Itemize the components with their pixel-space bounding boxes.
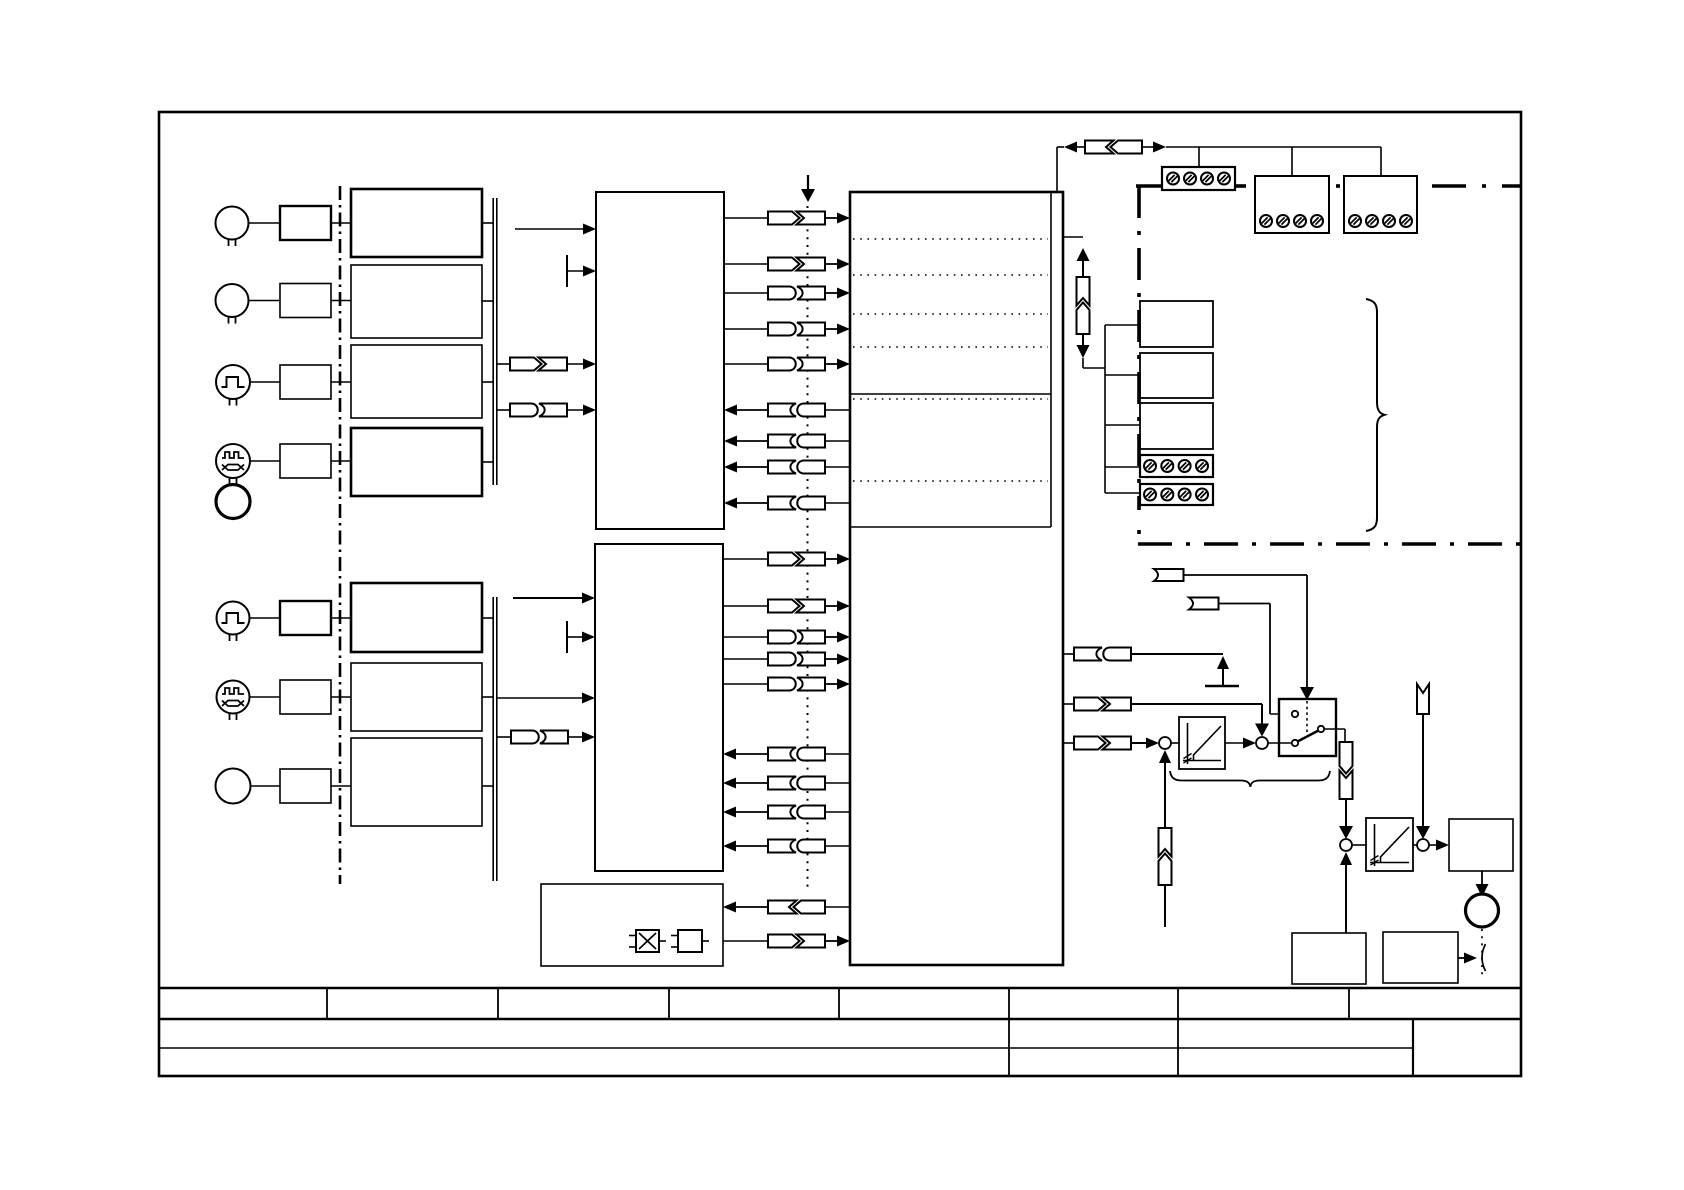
wire (737, 440, 768, 442)
switch lever (1298, 731, 1319, 742)
ramp generator RFG1 (1179, 717, 1225, 769)
wire (331, 222, 351, 224)
title block row separator (159, 987, 1521, 989)
wire (825, 328, 839, 330)
arrow (837, 359, 850, 370)
interface module A2 (280, 284, 331, 318)
wire (1082, 358, 1084, 368)
wire (482, 381, 493, 383)
arrow (1436, 840, 1449, 851)
default input tee (567, 255, 584, 287)
limiter element (671, 930, 709, 952)
wire (723, 658, 768, 660)
incremental encoder G6 (217, 681, 250, 721)
potential arrow (1205, 656, 1239, 686)
title block lower divider 1 (1008, 1019, 1010, 1076)
arrow (1159, 750, 1171, 763)
wire (1105, 466, 1140, 468)
wire (825, 502, 850, 504)
wire (1198, 147, 1200, 167)
wire (736, 753, 768, 755)
wire (825, 683, 839, 685)
function group brace (1170, 771, 1330, 787)
bus rail 1 (493, 198, 497, 485)
title block column divider 6 (1177, 988, 1179, 1019)
wire (331, 785, 351, 787)
connector K8 (768, 404, 825, 417)
pulse generator G3 (216, 365, 250, 406)
wire (250, 696, 281, 698)
arrow (1476, 884, 1489, 897)
wire (250, 381, 280, 383)
wire (825, 363, 839, 365)
arrow (837, 601, 850, 612)
wire (497, 697, 583, 699)
wire (331, 617, 351, 619)
default input tee (567, 621, 583, 653)
wire (825, 811, 850, 813)
wire (723, 940, 768, 942)
connector K19 (768, 777, 825, 790)
unit boundary dash-dot side (1137, 186, 1141, 534)
title block thin rule (159, 1047, 1413, 1049)
connector K3 (768, 212, 825, 225)
arrow (1255, 724, 1269, 737)
arrow (582, 693, 595, 704)
arrow (724, 498, 737, 509)
incremental encoder G4 (216, 444, 250, 485)
arrow (583, 224, 596, 235)
connector K6 (768, 323, 825, 336)
connector K25 (1077, 277, 1090, 334)
terminal strip X5 (1140, 484, 1213, 505)
wire (825, 940, 839, 942)
parameter row dotted (853, 480, 1048, 482)
wire (331, 300, 351, 302)
connector K15 (768, 631, 825, 644)
connector K23 (768, 935, 825, 948)
interface module A3 (280, 365, 331, 399)
connector K13 (768, 553, 825, 566)
wire (1481, 871, 1483, 885)
processing block U2 (595, 544, 723, 871)
arrow (1340, 852, 1352, 865)
connector K24 (1085, 141, 1142, 154)
wire (1104, 325, 1106, 493)
title block lower divider 2 (1177, 1019, 1179, 1076)
title block column divider 7 (1348, 988, 1350, 1019)
parameter area divider (850, 393, 1051, 395)
relay block R1 (1140, 301, 1213, 347)
arrow (1064, 142, 1077, 153)
interface module A1 (280, 206, 331, 240)
bus rail 2 (493, 597, 497, 881)
wire (737, 409, 768, 411)
wire (1105, 374, 1140, 376)
wire (724, 292, 768, 294)
unit boundary dash-dot bottom (1138, 542, 1521, 546)
arrow (1339, 826, 1353, 839)
wire (1131, 704, 1262, 724)
arrow (583, 266, 596, 277)
transducer G2 (216, 284, 249, 324)
encoder dotted link (1481, 929, 1483, 977)
wire (1077, 146, 1085, 148)
binector flag F1 (1154, 569, 1184, 581)
wire (482, 696, 493, 698)
switch contact (1292, 711, 1298, 717)
wire (1164, 763, 1166, 828)
switch contact (1318, 726, 1324, 732)
wire (825, 263, 839, 265)
wire (482, 461, 493, 463)
option module X3 (1344, 176, 1417, 233)
ramp generator RFG2 (1366, 818, 1413, 871)
summing junction S2 (1256, 737, 1268, 749)
wire (482, 785, 493, 787)
wire (723, 683, 768, 685)
arrow (837, 213, 850, 224)
input block B4 (351, 428, 482, 496)
connector K12 (511, 731, 568, 744)
wire (567, 363, 584, 365)
wire (1219, 604, 1292, 715)
wire (513, 597, 583, 599)
arrow (583, 405, 596, 416)
arrow (724, 436, 737, 447)
connector K2 (510, 404, 567, 417)
arrow (583, 359, 596, 370)
connector K10 (768, 461, 825, 474)
wire (1458, 957, 1465, 959)
wire (331, 460, 351, 462)
wire (737, 502, 768, 504)
arrow (1146, 738, 1159, 749)
wire (1063, 653, 1074, 655)
wire (1105, 492, 1140, 494)
title block stamp box divider (1412, 1019, 1414, 1076)
wire (482, 617, 493, 619)
parameter row dotted (853, 238, 1048, 240)
terminal strip X1 (1162, 167, 1235, 190)
wire (724, 363, 768, 365)
wire (1056, 147, 1058, 192)
wire (1082, 261, 1084, 277)
connector K5 (768, 287, 825, 300)
arrow (837, 288, 850, 299)
wire (1268, 742, 1292, 744)
summing junction S3 (1340, 839, 1352, 851)
arrow (1077, 345, 1090, 358)
parameter row dotted (853, 274, 1048, 276)
wire (1164, 885, 1166, 927)
wire (825, 782, 850, 784)
wire (1291, 147, 1293, 176)
switch contact (1292, 740, 1298, 746)
cabinet boundary line (339, 186, 342, 884)
options group brace (1366, 299, 1385, 531)
wire (1380, 147, 1382, 176)
wire (249, 300, 281, 302)
wire (723, 605, 768, 607)
wire (1422, 714, 1424, 826)
arrow (1300, 687, 1314, 700)
wire (1225, 742, 1244, 744)
relay block R3 (1140, 403, 1213, 449)
interface module A6 (280, 680, 331, 714)
input block B3 (351, 345, 482, 418)
wire (825, 605, 839, 607)
title block column divider 1 (326, 988, 328, 1019)
transducer G7 (216, 769, 251, 804)
unit boundary dash-dot top (1136, 184, 1520, 188)
wire (331, 696, 351, 698)
wire (1413, 844, 1417, 846)
arrow (1153, 142, 1166, 153)
encoder coupling (1482, 944, 1486, 971)
wire (482, 222, 493, 224)
title block column divider 4 (838, 988, 840, 1019)
wire (825, 292, 839, 294)
interface module A7 (280, 769, 331, 803)
processing block U1 (596, 192, 724, 529)
input block B6 (351, 663, 482, 731)
wire (737, 466, 768, 468)
monitoring block U3 (541, 884, 723, 966)
supply block U6 (1292, 933, 1366, 984)
input block B2 (351, 265, 482, 338)
wire (736, 906, 768, 908)
wire (1083, 367, 1105, 369)
connector K21 (768, 840, 825, 853)
arrow (723, 749, 736, 760)
connector K29 (1159, 828, 1172, 885)
wire (1324, 729, 1345, 742)
motor M2 (1466, 894, 1499, 927)
wire (497, 736, 511, 738)
wire (1063, 703, 1074, 705)
input block B1 (351, 189, 482, 257)
controller block U5 (1449, 819, 1513, 871)
pulse generator G5 (217, 602, 250, 642)
arrow (1077, 248, 1090, 261)
wire (825, 636, 839, 638)
sheet entry arrow (801, 175, 815, 202)
wire (1063, 236, 1083, 238)
connector K30 (1340, 742, 1353, 799)
arrow (1416, 826, 1430, 839)
wire (250, 617, 281, 619)
wire (736, 845, 768, 847)
connector K7 (768, 358, 825, 371)
wire (515, 228, 584, 230)
wire (825, 658, 839, 660)
wire (825, 558, 839, 560)
arrow (837, 936, 850, 947)
wire (723, 558, 768, 560)
connector K14 (768, 600, 825, 613)
connector K28 (1074, 737, 1131, 750)
connector K17 (768, 678, 825, 691)
wire (568, 736, 583, 738)
supply block U7 (1383, 932, 1458, 983)
wire (250, 460, 280, 462)
page frame border (159, 112, 1521, 1076)
connector K18 (768, 748, 825, 761)
wire (724, 217, 768, 219)
wire (825, 906, 850, 908)
arrow (837, 324, 850, 335)
arrow (582, 632, 595, 643)
switch actuation dashed (1306, 701, 1308, 734)
multiplier element (629, 930, 666, 952)
wire (724, 328, 768, 330)
connector K27 (1074, 698, 1131, 711)
connector K22 (768, 901, 825, 914)
interface module A4 (280, 444, 331, 478)
wire (1142, 146, 1153, 148)
wire (482, 300, 493, 302)
arrow (723, 807, 736, 818)
arrow (582, 593, 595, 604)
connector K26 (1074, 648, 1131, 661)
wire (1345, 799, 1347, 826)
wire (1171, 742, 1179, 744)
wire (825, 845, 850, 847)
input block B5 (351, 583, 482, 652)
wire (1131, 653, 1223, 655)
parameter area divider (850, 526, 1051, 528)
wire (497, 409, 510, 411)
parameter row dotted (853, 346, 1048, 348)
wire (331, 381, 351, 383)
wire (1063, 742, 1074, 744)
wire (1352, 844, 1366, 846)
wire (825, 466, 850, 468)
arrow (837, 679, 850, 690)
wire (1105, 424, 1140, 426)
arrow (723, 902, 736, 913)
arrow (837, 632, 850, 643)
arrow (837, 654, 850, 665)
parameter row dotted (853, 398, 1048, 400)
motor encoder M1 (216, 485, 250, 519)
summing junction S4 (1417, 839, 1429, 851)
wire (1105, 324, 1140, 326)
wire (1057, 146, 1064, 148)
terminal strip X4 (1140, 455, 1213, 477)
connector K11 (768, 497, 825, 510)
interface module A5 (280, 601, 331, 635)
wire (1166, 146, 1381, 148)
wire (723, 636, 768, 638)
wire (724, 263, 768, 265)
summing junction S1 (1159, 737, 1171, 749)
arrow (837, 259, 850, 270)
connector K20 (768, 806, 825, 819)
title block column divider 3 (668, 988, 670, 1019)
binector flag F3 (1417, 684, 1429, 714)
wire (825, 217, 839, 219)
transducer G1 (216, 207, 249, 247)
title block column divider 2 (497, 988, 499, 1019)
input block B7 (351, 738, 482, 826)
connector K4 (768, 258, 825, 271)
arrow (724, 462, 737, 473)
arrow (582, 732, 595, 743)
wire (249, 222, 281, 224)
arrow (837, 554, 850, 565)
binector flag F2 (1189, 598, 1219, 610)
connector K1 (510, 358, 567, 371)
relay block R2 (1140, 353, 1213, 398)
option module X2 (1255, 176, 1329, 233)
arrow (1464, 953, 1477, 964)
wire (497, 363, 510, 365)
wire (1345, 865, 1347, 933)
wire (736, 811, 768, 813)
changeover switch SW1 (1279, 699, 1336, 756)
sheet boundary dotted line (807, 206, 809, 890)
parameter area divider (1050, 192, 1052, 527)
parameter row dotted (853, 313, 1048, 315)
wire (825, 753, 850, 755)
arrow (724, 405, 737, 416)
title block lower separator (159, 1018, 1521, 1020)
arrow (1243, 738, 1256, 749)
wire (567, 409, 584, 411)
wire (1082, 334, 1084, 345)
connector K9 (768, 435, 825, 448)
wire (1184, 575, 1308, 688)
wire (736, 782, 768, 784)
wire (1131, 742, 1146, 744)
arrow (723, 841, 736, 852)
control block U4 (850, 192, 1063, 965)
wire (251, 785, 281, 787)
wire (1429, 844, 1437, 846)
connector K16 (768, 653, 825, 666)
wire (825, 409, 850, 411)
wire (825, 440, 850, 442)
title block column divider 5 (1008, 988, 1010, 1019)
arrow (723, 778, 736, 789)
